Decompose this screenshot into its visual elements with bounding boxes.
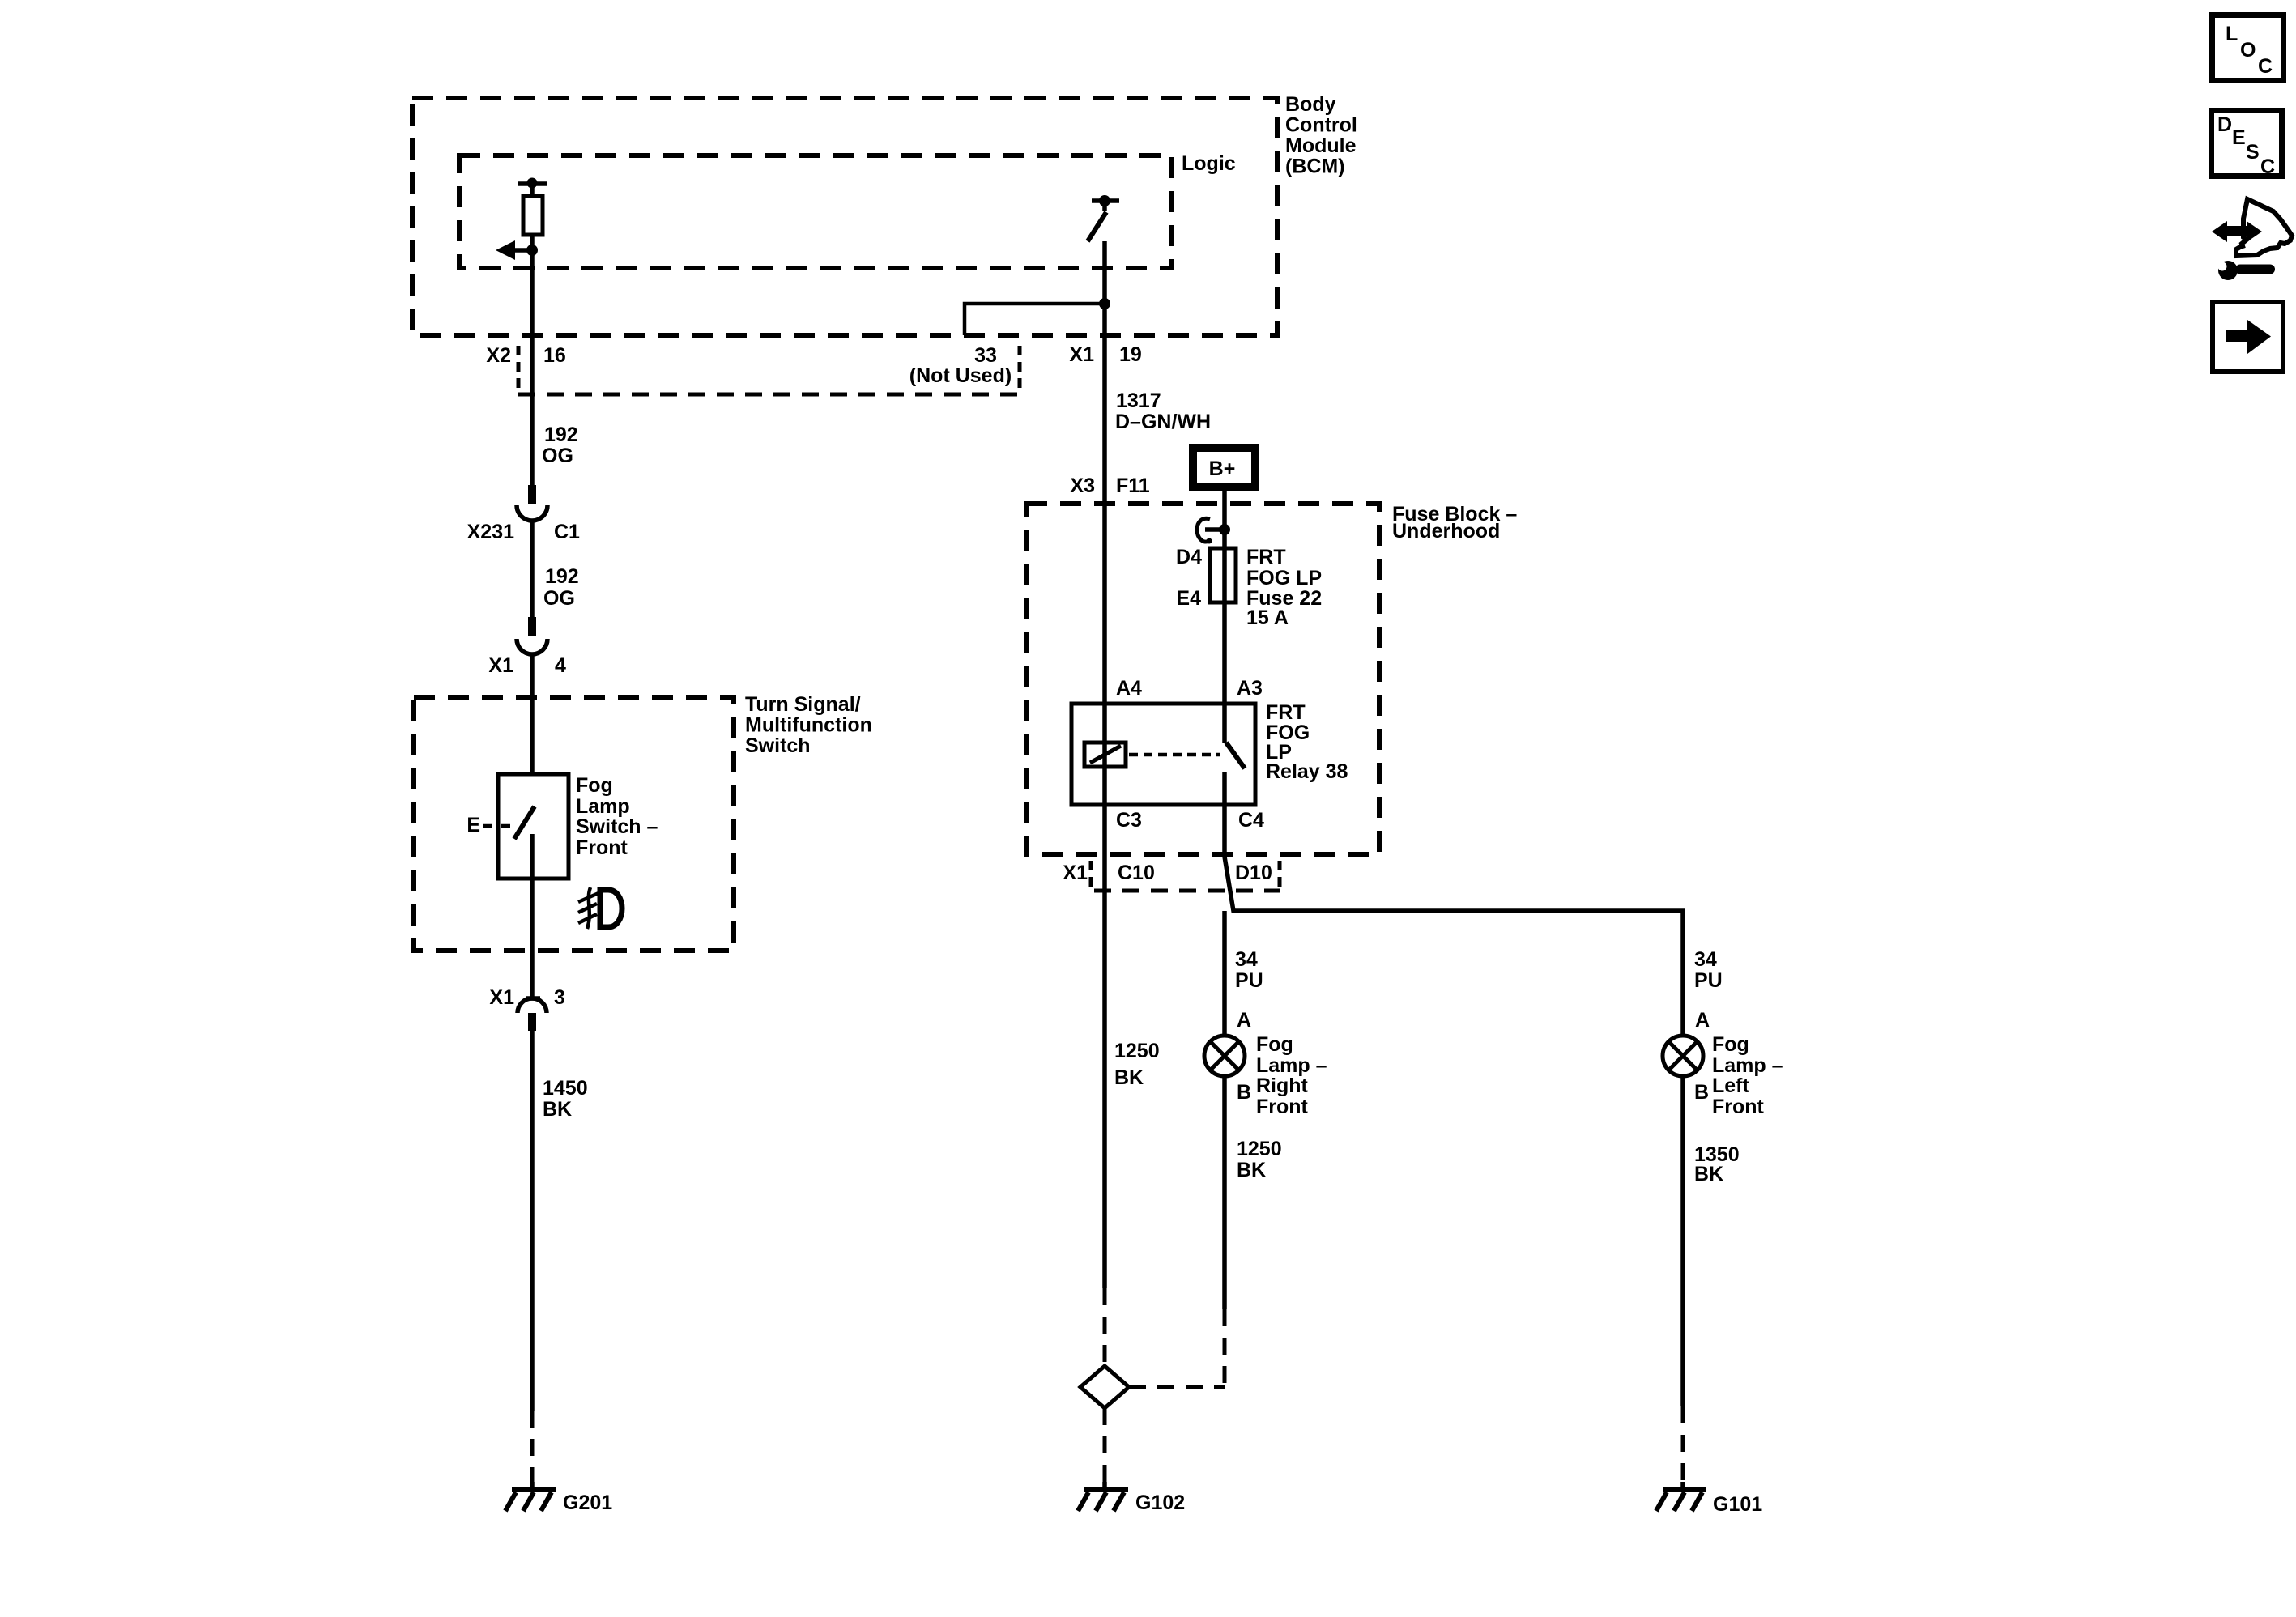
Fuse Block - Underhood dashed box (1026, 504, 1379, 854)
label 1450 BK (543, 1077, 588, 1121)
svg-text:BK: BK (1114, 1066, 1144, 1089)
svg-text:E: E (2232, 126, 2246, 149)
label 34 PU (right lamp) (1235, 948, 1263, 992)
wire: BCM switch to X1-19 and down to relay A4 (1102, 241, 1107, 1288)
svg-text:X231: X231 (467, 521, 514, 543)
label 34 PU (left lamp) (1694, 948, 1723, 992)
svg-text:Lamp: Lamp (576, 795, 630, 818)
dashed wire splice to right lamp return (1129, 1385, 1225, 1389)
wire below right lamp (1222, 1076, 1227, 1309)
svg-text:C3: C3 (1116, 809, 1142, 832)
svg-text:16: 16 (543, 344, 566, 367)
relay contact blade (1226, 743, 1245, 768)
ground G102 (1078, 1482, 1185, 1514)
svg-text:(BCM): (BCM) (1285, 155, 1345, 178)
connector row X2/16 and 33 Not Used (486, 344, 1020, 394)
relay label (1266, 701, 1348, 783)
svg-text:F11: F11 (1116, 474, 1150, 497)
dashed wire to G201 (530, 1411, 535, 1487)
svg-text:X2: X2 (486, 344, 511, 367)
wire: B+ down to relay A3 (1222, 491, 1227, 743)
svg-text:Right: Right (1256, 1074, 1309, 1097)
svg-text:4: 4 (555, 654, 566, 677)
relay actuation dashed link (1129, 753, 1220, 757)
fog lamp right front (1204, 1036, 1245, 1076)
svg-text:BK: BK (543, 1098, 572, 1121)
wire below left lamp (1680, 1076, 1685, 1406)
fog lamp right label (1256, 1033, 1327, 1118)
relay coil (1084, 743, 1126, 767)
svg-text:Multifunction: Multifunction (745, 714, 872, 737)
label B (right) (1237, 1081, 1251, 1104)
svg-text:1250: 1250 (1114, 1040, 1160, 1062)
wire: switch lower terminal down to X1-3 (530, 834, 535, 998)
Fuse Block label (1392, 503, 1517, 543)
svg-text:BK: BK (1237, 1159, 1266, 1181)
svg-text:C10: C10 (1118, 862, 1155, 884)
svg-text:(Not Used): (Not Used) (909, 364, 1012, 387)
fog lamp switch label (576, 774, 658, 859)
svg-text:19: 19 (1119, 343, 1142, 366)
svg-text:Body: Body (1285, 93, 1336, 116)
svg-text:FRT: FRT (1266, 701, 1306, 724)
svg-text:E4: E4 (1176, 587, 1201, 610)
wire into switch box (530, 654, 535, 808)
svg-text:Logic: Logic (1182, 152, 1236, 175)
svg-text:Left: Left (1712, 1074, 1750, 1097)
svg-text:E: E (466, 814, 480, 836)
svg-text:Front: Front (576, 836, 628, 859)
connector row X1 C10 D10 (1063, 861, 1280, 891)
svg-text:34: 34 (1694, 948, 1717, 971)
svg-text:OG: OG (542, 445, 573, 467)
Logic label (1182, 152, 1236, 175)
svg-text:Switch: Switch (745, 734, 811, 757)
svg-text:D4: D4 (1176, 546, 1202, 568)
BCM outer dashed box (412, 98, 1277, 335)
svg-text:C: C (2258, 55, 2273, 78)
fog lamp left front (1663, 1036, 1703, 1076)
connector X231 C1 (467, 485, 580, 543)
LOC icon box (2213, 15, 2284, 81)
dashed wire to G101 (1681, 1406, 1685, 1487)
svg-text:Lamp –: Lamp – (1712, 1054, 1783, 1077)
wire: feed down to right lamp (1222, 911, 1227, 1036)
svg-text:Front: Front (1256, 1096, 1309, 1118)
wire between connectors (530, 521, 535, 619)
svg-text:L: L (2226, 23, 2238, 45)
dashed wire into splice (1103, 1288, 1107, 1366)
node E label with dashes (466, 814, 510, 836)
fog lamp left label (1712, 1033, 1783, 1118)
label B (left) (1694, 1081, 1709, 1104)
connector X1 pin 19 labels (1069, 343, 1141, 366)
label 1350 BK (1694, 1143, 1740, 1185)
label A (left) (1695, 1009, 1710, 1032)
svg-text:X1: X1 (1063, 862, 1088, 884)
svg-text:X1: X1 (1069, 343, 1094, 366)
fog lamp icon (578, 887, 622, 929)
wire: D10 to right lamps feed (1225, 857, 1683, 1036)
svg-text:Switch –: Switch – (576, 815, 658, 838)
svg-text:B: B (1237, 1081, 1251, 1104)
svg-text:X1: X1 (488, 654, 513, 677)
svg-text:Control: Control (1285, 114, 1357, 137)
svg-text:PU: PU (1235, 969, 1263, 992)
switch (BCM internal logic switch) (1088, 195, 1119, 241)
svg-text:D–GN/WH: D–GN/WH (1115, 411, 1211, 433)
fuse FRT FOG LP Fuse 22 15A (1176, 546, 1322, 629)
svg-text:A3: A3 (1237, 677, 1263, 700)
ground G101 (1656, 1482, 1762, 1516)
dashed wire splice to G102 (1103, 1408, 1107, 1487)
svg-text:S: S (2246, 141, 2260, 164)
resistor (BCM internal driver) (518, 178, 547, 251)
svg-text:X1: X1 (489, 986, 514, 1009)
svg-text:OG: OG (543, 587, 575, 610)
svg-text:Lamp –: Lamp – (1256, 1054, 1327, 1077)
svg-text:O: O (2240, 39, 2256, 62)
connector X1 pin 3 (489, 986, 565, 1031)
svg-text:PU: PU (1694, 969, 1723, 992)
svg-text:192: 192 (545, 565, 579, 588)
svg-text:B: B (1694, 1081, 1709, 1104)
svg-text:Relay 38: Relay 38 (1266, 760, 1348, 783)
svg-text:34: 34 (1235, 948, 1258, 971)
svg-text:192: 192 (544, 423, 578, 446)
arrow (output to left) (496, 240, 532, 260)
wire 1450 BK (530, 1031, 535, 1411)
svg-text:G101: G101 (1713, 1493, 1762, 1516)
wrench icon (2218, 261, 2276, 280)
svg-text:Fog: Fog (1256, 1033, 1293, 1056)
svg-text:1450: 1450 (543, 1077, 588, 1100)
connector X1 pin 4 (488, 617, 566, 677)
svg-text:X3: X3 (1070, 474, 1095, 497)
fog lamp switch blade (514, 806, 535, 839)
svg-text:FOG LP: FOG LP (1246, 567, 1322, 589)
svg-text:D10: D10 (1235, 862, 1272, 884)
svg-text:1317: 1317 (1116, 389, 1161, 412)
bus curl symbol (1197, 518, 1226, 543)
svg-text:A: A (1695, 1009, 1710, 1032)
label 192 OG (lower) (543, 565, 579, 610)
dashed wire right lamp to splice line (1223, 1309, 1227, 1387)
svg-text:Module: Module (1285, 134, 1357, 157)
node: pin33 junction (1099, 298, 1110, 309)
splice diamond (1080, 1366, 1129, 1408)
node: fuse feed junction (1219, 524, 1230, 535)
BCM label (1285, 93, 1357, 178)
wire: left branch from X2-16 down (530, 250, 535, 487)
svg-text:Underhood: Underhood (1392, 520, 1500, 543)
Turn Signal label (745, 693, 872, 757)
svg-text:G102: G102 (1135, 1491, 1185, 1514)
label 1250 BK (relay C10 wire) (1114, 1040, 1160, 1089)
svg-text:FRT: FRT (1246, 546, 1286, 568)
svg-text:Fog: Fog (576, 774, 613, 797)
svg-text:33: 33 (974, 344, 997, 367)
ground G201 (505, 1482, 612, 1514)
label 1317 D-GN/WH (1115, 389, 1211, 433)
svg-text:3: 3 (554, 986, 565, 1009)
svg-text:BK: BK (1694, 1163, 1723, 1185)
svg-text:Front: Front (1712, 1096, 1765, 1118)
svg-text:C4: C4 (1238, 809, 1264, 832)
svg-text:B+: B+ (1209, 457, 1236, 480)
relay FRT FOG LP Relay 38 box (1071, 704, 1255, 805)
label 192 OG (upper) (542, 423, 578, 467)
svg-text:C1: C1 (554, 521, 580, 543)
svg-text:A: A (1237, 1009, 1251, 1032)
relay pin labels A4 A3 (1116, 677, 1263, 700)
svg-text:Turn Signal/: Turn Signal/ (745, 693, 861, 716)
wire: pin 33 stub (965, 304, 1105, 335)
svg-text:15 A: 15 A (1246, 606, 1289, 629)
Turn Signal / Multifunction Switch dashed box (414, 697, 734, 951)
label 1250 BK (right lamp) (1237, 1138, 1282, 1181)
label A (right) (1237, 1009, 1251, 1032)
arrow icon box (2213, 302, 2283, 372)
svg-text:G201: G201 (563, 1491, 612, 1514)
svg-text:D: D (2217, 113, 2232, 136)
node: resistor output junction (526, 245, 538, 256)
B+ power symbol (1193, 448, 1255, 487)
Logic dashed box (459, 155, 1172, 268)
fog lamp switch box (498, 774, 569, 879)
relay pin labels C3 C4 (1116, 809, 1264, 832)
svg-text:A4: A4 (1116, 677, 1142, 700)
svg-text:C: C (2260, 155, 2275, 178)
wire: relay C4 lower stub (1222, 772, 1227, 857)
svg-text:Fog: Fog (1712, 1033, 1749, 1056)
connector X3 F11 labels (1070, 474, 1149, 497)
svg-text:1250: 1250 (1237, 1138, 1282, 1160)
DESC icon box (2212, 111, 2282, 179)
hand with arrows icon (2212, 199, 2292, 256)
